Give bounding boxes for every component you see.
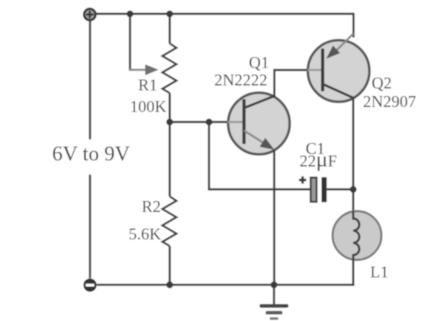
capacitor C1 <box>311 177 327 202</box>
node top rail wiper junction <box>127 11 134 18</box>
svg-text:R1: R1 <box>138 76 157 95</box>
battery positive terminal <box>84 9 95 20</box>
wire base of Q1 <box>170 121 229 123</box>
wire R1 top lead <box>169 13 171 44</box>
svg-text:L1: L1 <box>370 263 388 282</box>
transistor Q2 <box>308 34 370 102</box>
battery negative terminal <box>83 279 96 292</box>
wire Q1 emitter drop to ground rail <box>273 150 275 285</box>
svg-text:Q1: Q1 <box>249 53 269 72</box>
svg-text:2N2222: 2N2222 <box>214 71 267 90</box>
resistor R2 <box>162 196 176 246</box>
wire left supply upper <box>89 21 91 140</box>
wire L1 bottom lead <box>352 260 354 286</box>
label plus polarity of C1 <box>299 176 306 183</box>
svg-text:2N2907: 2N2907 <box>363 92 416 111</box>
wire Q1 collector to Q2 base <box>274 70 308 96</box>
wire feedback from base node down to C1 <box>209 122 310 189</box>
node R1 R2 base junction <box>166 119 173 126</box>
ground <box>260 285 289 320</box>
transistor Q1 <box>228 93 290 155</box>
wire R2 bottom lead <box>169 246 171 285</box>
label C1 <box>306 139 325 158</box>
wire R2 top lead <box>169 122 171 196</box>
node feedback junction <box>206 119 213 126</box>
svg-text:R2: R2 <box>142 197 161 216</box>
wire R1 bottom lead <box>169 93 171 122</box>
node bottom rail ground junction <box>271 281 278 288</box>
label 6V to 9V <box>52 142 130 166</box>
wire right drop to Q2 emitter <box>352 13 354 38</box>
node bottom rail R2 junction <box>166 281 173 288</box>
label 2N2907 <box>363 92 416 111</box>
wire wiper drop <box>129 13 131 71</box>
wire bottom rail <box>97 284 355 286</box>
label 22uF <box>299 146 336 171</box>
node top rail R1 junction <box>166 11 173 18</box>
label R1 <box>138 76 157 95</box>
label 5.6K <box>129 225 162 244</box>
label Q2 <box>372 74 392 93</box>
wire left supply lower <box>89 175 91 279</box>
svg-text:Q2: Q2 <box>372 74 392 93</box>
label L1 <box>370 263 388 282</box>
wire C1 right lead <box>327 188 354 190</box>
wire Q2 collector drop <box>352 98 354 212</box>
label 2N2222 <box>214 71 267 90</box>
svg-text:100K: 100K <box>130 97 167 116</box>
wire top rail <box>96 13 353 15</box>
inductor L1 <box>333 211 382 260</box>
node C1 collector junction <box>350 186 357 193</box>
label Q1 <box>249 53 269 72</box>
svg-text:5.6K: 5.6K <box>129 225 162 244</box>
resistor R1 <box>162 43 176 93</box>
wiper arrow of R1 <box>129 64 159 75</box>
label 100K <box>130 97 167 116</box>
svg-text:6V to 9V: 6V to 9V <box>52 142 130 166</box>
label R2 <box>142 197 161 216</box>
